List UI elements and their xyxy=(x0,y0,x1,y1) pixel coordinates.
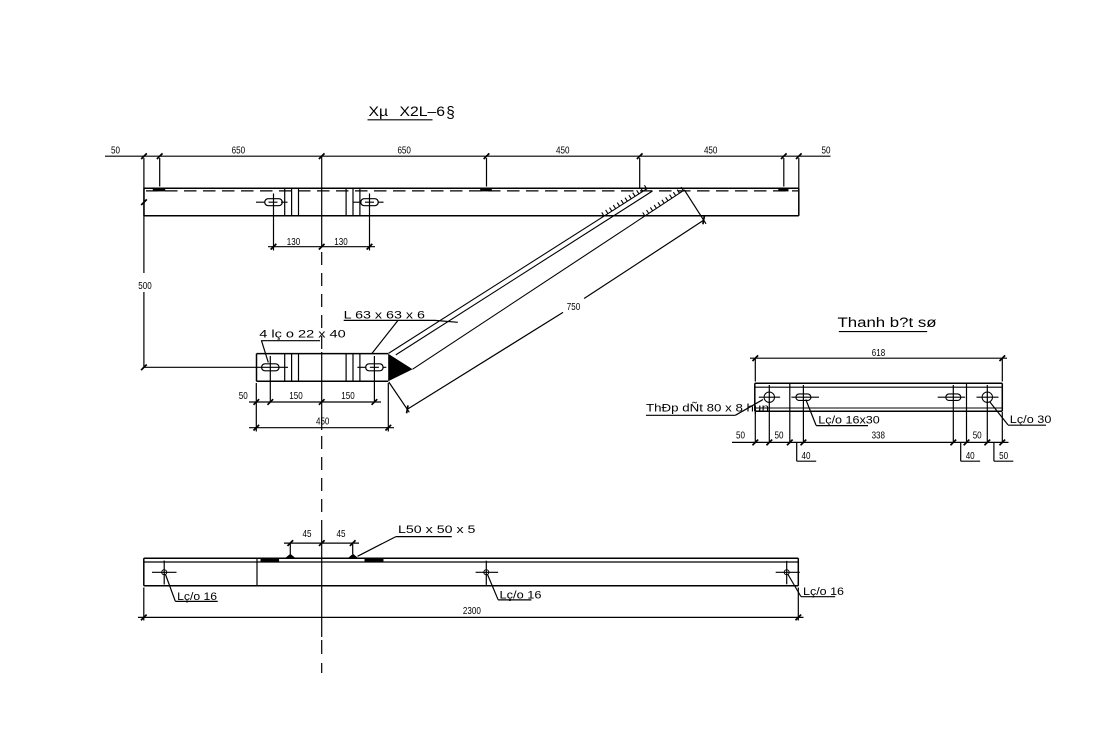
tick row1 d xyxy=(372,399,378,405)
svg-text:40: 40 xyxy=(966,450,975,462)
svg-text:Lç/o 30: Lç/o 30 xyxy=(1010,414,1052,426)
extension line x639.7 xyxy=(639,158,641,188)
tick 2300 right xyxy=(795,615,801,621)
top beam dashed line xyxy=(146,190,798,192)
diagonal end section triangle xyxy=(388,354,412,382)
bar ext right edge xyxy=(1001,412,1003,442)
svg-text:150: 150 xyxy=(341,390,355,402)
bar ext division left xyxy=(789,412,791,442)
plate extension line right xyxy=(387,383,389,432)
svg-text:50: 50 xyxy=(239,390,248,402)
618 dimension line xyxy=(750,357,1007,359)
svg-text:Lç/o 16: Lç/o 16 xyxy=(803,586,844,598)
bar slot right horizontal centreline xyxy=(938,396,966,398)
svg-text:Xµ: Xµ xyxy=(369,104,389,119)
tick at x159.7 xyxy=(157,153,163,159)
label Lc/o 16 no2 xyxy=(488,575,542,602)
tick at x321.7 xyxy=(319,153,325,159)
weld triangle right xyxy=(348,554,359,559)
svg-text:130: 130 xyxy=(334,236,348,248)
tie bar division right xyxy=(966,383,968,411)
plate extension line left xyxy=(255,383,257,432)
bar dim tick 6 xyxy=(964,440,970,446)
tick at x486.5 xyxy=(484,153,490,159)
svg-text:Thanh b?t sø: Thanh b?t sø xyxy=(838,315,937,330)
plate splice lines left group xyxy=(285,354,299,382)
tick row2 a xyxy=(253,425,259,431)
tick row1 a xyxy=(253,399,259,405)
cover plate black left xyxy=(261,559,280,562)
618 extension left xyxy=(754,359,756,382)
beam slot left centreline vertical xyxy=(273,194,275,251)
svg-text:Lç/o 16: Lç/o 16 xyxy=(177,591,217,603)
plate slot right xyxy=(366,364,384,371)
diagonal top edge line A xyxy=(389,188,648,353)
label Lc/o 16 no3 xyxy=(788,575,844,599)
hole 3 xyxy=(776,561,800,584)
45 dim line xyxy=(284,542,359,544)
bar dim tick 2 xyxy=(766,440,772,446)
svg-text:150: 150 xyxy=(289,390,303,402)
title Thanh bat so xyxy=(838,315,937,332)
750 extension top xyxy=(685,190,706,224)
title Xu X2L-6 xyxy=(368,104,455,122)
svg-text:45: 45 xyxy=(337,528,346,540)
svg-text:L50 x 50 x 5: L50 x 50 x 5 xyxy=(398,524,475,536)
bar dim tick 7 xyxy=(984,440,990,446)
weld plate mark middle xyxy=(480,188,492,191)
hole 2 xyxy=(476,561,499,585)
svg-text:4 lç o 22 x 40: 4 lç o 22 x 40 xyxy=(259,329,345,341)
svg-text:Lç/o 16: Lç/o 16 xyxy=(500,590,542,602)
45 ext c xyxy=(352,544,354,554)
tick 45 c xyxy=(350,540,356,546)
tick at x639.7 xyxy=(637,153,643,159)
gusset plate outline xyxy=(257,354,389,382)
hole circle right xyxy=(982,392,992,402)
2300 dimension line xyxy=(138,616,804,618)
tick row1 b xyxy=(267,399,273,405)
bar dim tick 1 xyxy=(752,440,758,446)
plate slot right vertical centreline xyxy=(373,356,375,402)
label Lc/o 16x30 xyxy=(806,400,880,427)
plate slot left vertical centreline xyxy=(269,356,271,402)
tick row2 b xyxy=(385,425,391,431)
bar slot left xyxy=(796,394,811,401)
vertical centreline xyxy=(321,157,323,673)
plate slot left xyxy=(262,364,280,371)
bottom beam outline xyxy=(144,558,799,586)
svg-text:50: 50 xyxy=(775,430,784,442)
hole circle right vertical centreline xyxy=(986,385,988,442)
tick 45 b xyxy=(319,540,325,546)
2300 extension right xyxy=(797,588,799,621)
beam slot right xyxy=(361,199,379,206)
label L50 x 50 x 5 xyxy=(358,524,476,556)
500 dimension line lower part xyxy=(143,292,145,367)
svg-text:40: 40 xyxy=(802,450,811,462)
hole circle left vertical centreline xyxy=(768,385,770,442)
beam slot right centreline horizontal xyxy=(353,201,384,203)
plate splice lines right group xyxy=(346,354,360,382)
svg-text:130: 130 xyxy=(287,236,301,248)
bar slot left vertical centreline xyxy=(802,385,804,442)
svg-text:500: 500 xyxy=(138,280,152,292)
svg-text:450: 450 xyxy=(704,144,718,156)
hole circle right horizontal centreline xyxy=(977,396,999,398)
tie bar outline xyxy=(755,383,1003,411)
offset dim 40 left xyxy=(797,442,817,462)
beam slot right centreline vertical xyxy=(369,194,371,251)
tie bar inner top line xyxy=(755,386,1003,388)
hole circle left xyxy=(764,392,774,402)
bar dim tick 5 xyxy=(950,440,956,446)
hole 1 xyxy=(152,561,177,585)
top beam outline xyxy=(144,188,799,216)
tick 2300 left xyxy=(141,615,147,621)
2300 extension left xyxy=(143,588,145,621)
svg-text:50: 50 xyxy=(736,430,745,442)
bar ext left edge xyxy=(754,412,756,442)
plate slot left horizontal centreline xyxy=(144,366,288,368)
plate slot right horizontal centreline xyxy=(357,366,386,368)
tie bar inner bottom line xyxy=(755,407,1003,409)
svg-text:45: 45 xyxy=(303,528,312,540)
tick 500 dim top xyxy=(141,199,147,205)
label Lc/o 16 no1 xyxy=(166,575,218,603)
bar dim tick 4 xyxy=(801,440,807,446)
offset dim 40 right xyxy=(961,442,980,462)
svg-text:§: § xyxy=(446,105,455,122)
tick 618 right xyxy=(999,355,1005,361)
tick 130 mid xyxy=(319,244,325,250)
tick at x798.8 xyxy=(796,153,802,159)
beam slot left centreline horizontal xyxy=(256,201,288,203)
weld hatch along top edge xyxy=(602,185,647,216)
splice plate lines right group xyxy=(346,188,360,216)
130 dimension line xyxy=(268,246,375,248)
svg-text:750: 750 xyxy=(567,301,581,313)
tie bar division left xyxy=(789,383,791,411)
extension line x486.5 xyxy=(486,158,488,187)
svg-text:50: 50 xyxy=(973,430,982,442)
label Thep det 80x8 han xyxy=(646,400,769,416)
svg-text:450: 450 xyxy=(556,144,570,156)
45 ext a xyxy=(289,544,291,554)
bar ext division right xyxy=(966,412,968,442)
svg-text:Lç/o 16x30: Lç/o 16x30 xyxy=(818,414,880,426)
svg-text:L 63 x 63 x 6: L 63 x 63 x 6 xyxy=(344,309,425,321)
bottom beam flange line xyxy=(144,561,799,563)
618 extension right xyxy=(1001,359,1003,382)
svg-text:450: 450 xyxy=(316,416,330,428)
splice plate lines left group xyxy=(285,188,299,216)
label Lc/o 30 xyxy=(990,402,1052,427)
extension line x783.8 xyxy=(783,158,785,187)
svg-text:650: 650 xyxy=(232,144,246,156)
hole circle left horizontal centreline xyxy=(759,396,780,398)
bar slot left horizontal centreline xyxy=(791,396,819,398)
tick 500 dim bottom xyxy=(141,364,147,370)
beam slot left xyxy=(265,199,283,206)
svg-text:X2L–6: X2L–6 xyxy=(400,104,446,119)
svg-text:ThÐp dÑt 80 x 8 hµn: ThÐp dÑt 80 x 8 hµn xyxy=(646,402,769,415)
top dimension line xyxy=(105,155,831,157)
tick 45 a xyxy=(287,540,293,546)
svg-text:338: 338 xyxy=(872,430,886,442)
bar slot right vertical centreline xyxy=(952,385,954,442)
bar dim tick 8 xyxy=(999,440,1005,446)
diagonal top edge line B xyxy=(396,191,653,355)
extension line x798.8 xyxy=(798,158,800,188)
plate dim row2 line xyxy=(249,427,394,429)
svg-text:2300: 2300 xyxy=(463,605,481,617)
tick at x783.8 xyxy=(781,153,787,159)
tick 618 left xyxy=(752,355,758,361)
bottom beam division xyxy=(256,558,258,586)
500 dimension line upper part xyxy=(143,158,145,273)
750 extension bottom xyxy=(389,382,410,412)
svg-text:618: 618 xyxy=(872,347,886,359)
svg-text:50: 50 xyxy=(111,144,120,156)
weld plate mark left xyxy=(153,188,165,191)
bar dim row line xyxy=(732,441,1009,443)
svg-text:650: 650 xyxy=(397,144,411,156)
tick 130 left xyxy=(271,244,277,250)
tick 130 right xyxy=(367,244,373,250)
750 dimension line xyxy=(407,216,705,413)
label 4 lo o 22 x 40 xyxy=(259,329,345,363)
label L 63 x 63 x 6 xyxy=(344,309,458,354)
plate dim row1 line xyxy=(249,401,381,403)
offset dim 50 right xyxy=(994,442,1013,462)
diagonal bottom edge line C xyxy=(413,190,685,369)
bar dim tick 3 xyxy=(787,440,793,446)
cover plate black right xyxy=(365,559,384,562)
tick at x144 xyxy=(141,153,147,159)
tick row1 c xyxy=(319,399,325,405)
weld plate mark right xyxy=(778,188,788,191)
weld triangle left xyxy=(285,554,296,559)
svg-text:50: 50 xyxy=(999,450,1008,462)
bar slot right xyxy=(946,394,961,401)
svg-text:50: 50 xyxy=(822,144,831,156)
weld hatch along bottom edge xyxy=(643,187,684,216)
extension line x159.7 xyxy=(159,158,161,187)
